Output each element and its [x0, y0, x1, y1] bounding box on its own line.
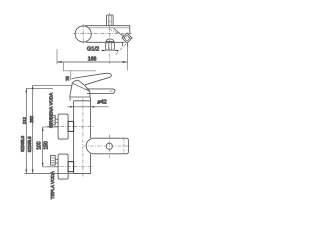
side view: extension line above lever — [63, 70, 96, 72]
side view: cartridge dome split line — [72, 83, 90, 91]
svg-text:ø42: ø42 — [97, 100, 106, 106]
dimension 100/150: line — [42, 127, 44, 167]
lower connection: eccentric connector — [68, 162, 74, 172]
height dimension line A — [25, 88, 27, 173]
dimension 100/150: bottom extension — [43, 166, 58, 168]
side view: body vertical centerline — [82, 99, 84, 177]
dimension dia42: right arrowhead — [91, 106, 95, 108]
extension tick at lever base — [62, 62, 64, 71]
upper connection: eccentric hex nut — [51, 115, 56, 125]
side view: shower outlet piece — [86, 138, 128, 154]
dimension 166: right arrowhead — [123, 61, 128, 63]
svg-text:166: 166 — [88, 57, 97, 63]
svg-text:SZ055.5: SZ055.5 — [27, 136, 32, 153]
upper connection: rosette — [58, 114, 68, 139]
dimension 166: line — [57, 61, 127, 63]
upper connection: hex nut facets — [51, 118, 56, 123]
dimension 166: left extension line — [56, 49, 58, 64]
top view: outlet flange band — [105, 42, 114, 43]
top view: body inner top line — [89, 27, 130, 29]
top view: body top edge — [85, 26, 130, 34]
dimension dia42: line — [68, 106, 109, 108]
side view: spout bar center dash — [110, 90, 113, 92]
side view: body outline — [74, 101, 91, 174]
svg-text:STUDENA VODA: STUDENA VODA — [49, 93, 54, 128]
side view: shower outlet vertical centerline — [108, 135, 110, 158]
upper connection: eccentric connector — [68, 121, 74, 131]
lower connection: hex nut facets — [51, 158, 56, 163]
svg-text:G1/2: G1/2 — [87, 47, 99, 53]
svg-text:150: 150 — [44, 141, 50, 150]
top view: body bottom edge — [86, 41, 125, 43]
top view: diagonal centerline — [109, 29, 133, 39]
svg-text:100: 100 — [36, 141, 42, 150]
lower connection: eccentric hex nut — [51, 156, 56, 166]
height dimension line A: top extension — [26, 87, 53, 89]
top view: rotated square (45deg shower connector) — [122, 33, 132, 43]
top view: hose axis centerline below square — [115, 44, 126, 55]
height dimension line B: top extension — [33, 84, 72, 86]
upper connection: inlet pipe — [55, 119, 58, 123]
top view: top stub inner lines — [109, 15, 112, 25]
svg-text:TEPLA VODA: TEPLA VODA — [50, 171, 55, 199]
top view: horizontal centerline — [74, 33, 132, 35]
height dimension: bottom extension — [25, 172, 78, 174]
side view: shower outlet circle — [106, 143, 112, 149]
top view: circle (lever cap end) — [75, 26, 91, 42]
svg-text:SZ065.0: SZ065.0 — [20, 135, 25, 152]
dimension G1/2: left arrow — [102, 50, 106, 52]
height dimension line B — [32, 85, 34, 173]
side view: spout bar — [87, 89, 115, 94]
dimension dia42: left arrowhead — [70, 106, 74, 108]
dimension G1/2: right arrow — [115, 50, 119, 52]
svg-text:212: 212 — [22, 116, 27, 124]
side view: cartridge ring — [70, 97, 90, 101]
side view: shower outlet screw centerline — [123, 138, 125, 153]
side view: 75 extension tick — [70, 71, 72, 80]
top view: circle vertical centerline — [82, 24, 84, 44]
side view: lever handle — [72, 73, 112, 85]
top view: top stub (cartridge boss) — [107, 15, 114, 26]
svg-text:75: 75 — [65, 76, 70, 81]
lower connection: centerline — [47, 166, 94, 168]
lower connection: inlet pipe — [55, 159, 58, 163]
top view: rotated square inner outline — [124, 35, 130, 41]
svg-text:262: 262 — [29, 115, 34, 123]
top view: outlet stub inner lines — [108, 43, 111, 50]
dimension 166: right extension line — [126, 47, 128, 71]
dimension 166: left arrowhead — [57, 61, 62, 63]
side view: shower outlet horizontal centerline — [84, 145, 131, 147]
upper connection: centerline — [47, 125, 94, 127]
top view: outlet dome — [106, 39, 114, 41]
dimension 100/150: top extension — [43, 126, 58, 128]
top view: outlet stub walls — [106, 43, 115, 50]
top view: outlet vertical centerline — [109, 13, 111, 65]
top view: stub below square — [123, 42, 128, 47]
top view: diagonal crease line — [114, 28, 126, 38]
lower connection: rosette — [58, 154, 68, 179]
side view: cartridge dome — [70, 80, 90, 97]
